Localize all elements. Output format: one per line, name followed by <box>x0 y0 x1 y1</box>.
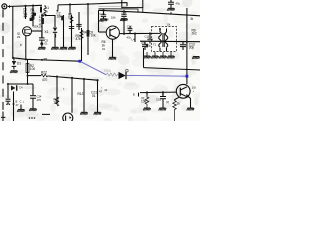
svg-text:01: 01 <box>45 42 48 46</box>
svg-text:30p: 30p <box>189 46 195 50</box>
svg-text:33p: 33p <box>99 19 104 23</box>
svg-text:47k: 47k <box>76 37 82 41</box>
svg-text:R12: R12 <box>78 92 84 96</box>
svg-text:10t: 10t <box>167 23 171 27</box>
svg-text:C: C <box>162 93 164 97</box>
svg-text:5t: 5t <box>191 17 194 21</box>
svg-text:C10: C10 <box>127 25 132 29</box>
svg-text:R4: R4 <box>83 31 87 35</box>
svg-text:Q1: Q1 <box>17 32 21 36</box>
svg-text:C11: C11 <box>145 35 150 39</box>
svg-text:T1: T1 <box>153 43 157 47</box>
svg-text:470: 470 <box>37 98 42 102</box>
svg-text:R22: R22 <box>41 71 47 75</box>
svg-text:C16: C16 <box>100 12 106 16</box>
svg-text:7t: 7t <box>46 10 48 14</box>
svg-text:10k: 10k <box>91 34 97 38</box>
svg-text:5.1kΩ: 5.1kΩ <box>104 69 111 73</box>
svg-text:L1: L1 <box>46 6 50 10</box>
svg-text:C01: C01 <box>156 98 161 102</box>
svg-text:50p: 50p <box>141 42 146 45</box>
svg-text:47p: 47p <box>176 2 181 6</box>
svg-text:100: 100 <box>30 67 36 71</box>
svg-text:C18: C18 <box>122 11 127 15</box>
svg-text:10k: 10k <box>54 101 60 105</box>
svg-text:10t: 10t <box>192 86 196 90</box>
svg-text:47: 47 <box>16 103 19 107</box>
svg-text:ww: ww <box>44 58 48 61</box>
svg-text:1k: 1k <box>177 102 181 106</box>
svg-text:1k: 1k <box>102 44 106 48</box>
svg-text:B: B <box>133 93 135 97</box>
svg-text:X1: X1 <box>45 30 49 34</box>
svg-text:10k: 10k <box>111 16 116 20</box>
svg-text:L4: L4 <box>132 38 135 42</box>
svg-text:01: 01 <box>102 47 105 51</box>
svg-text:10k: 10k <box>141 100 147 104</box>
svg-text:4p7: 4p7 <box>121 18 126 22</box>
svg-text:C: C <box>20 100 22 104</box>
svg-text:470: 470 <box>42 78 48 82</box>
svg-text:2k2: 2k2 <box>192 32 197 36</box>
svg-text:01: 01 <box>92 94 96 98</box>
svg-text:D1: D1 <box>17 62 21 66</box>
svg-text:01: 01 <box>68 16 72 20</box>
svg-text:•: • <box>193 91 194 94</box>
svg-text:2SK19: 2SK19 <box>34 25 43 29</box>
svg-text:B: B <box>16 100 18 104</box>
svg-text:R8: R8 <box>105 18 109 22</box>
svg-text:2S: 2S <box>17 35 20 39</box>
svg-text:47: 47 <box>99 90 102 94</box>
svg-text:C4: C4 <box>19 86 23 90</box>
